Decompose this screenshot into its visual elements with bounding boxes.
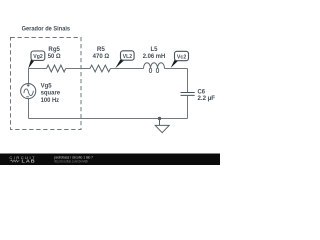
svg-text:LAB: LAB	[22, 159, 36, 164]
svg-text:R5: R5	[97, 47, 106, 53]
wire: R5 to L5	[110, 68, 143, 70]
footer logo resistor zigzag	[10, 160, 20, 162]
svg-text:C6: C6	[198, 89, 206, 95]
footer bar	[0, 154, 220, 166]
inductor L5	[144, 63, 165, 69]
wire: corner down to C6	[187, 69, 189, 93]
svg-text:2.2 µF: 2.2 µF	[198, 96, 216, 102]
ground	[155, 119, 169, 133]
svg-text:100 Hz: 100 Hz	[41, 98, 60, 104]
svg-text:Vg2: Vg2	[33, 54, 42, 60]
resistor Rg5	[47, 65, 66, 72]
wire: Rg5 to R5	[66, 68, 90, 70]
dashed annotation box	[11, 38, 82, 130]
wire: corner to Rg5	[29, 68, 47, 70]
voltage source Vg5	[21, 84, 36, 99]
svg-text:VL2: VL2	[123, 54, 132, 60]
wire: C6 down to bottom-right corner	[187, 96, 189, 119]
wire: source bottom to bottom rail	[28, 99, 30, 119]
svg-text:Vc2: Vc2	[177, 54, 186, 60]
node junction dot at ground	[158, 117, 161, 120]
svg-text:L5: L5	[151, 47, 159, 53]
probe label Vc2	[171, 51, 189, 68]
resistor R5	[90, 65, 110, 72]
wire: bottom rail	[29, 118, 188, 120]
svg-text:square: square	[41, 91, 61, 97]
svg-text:http:∕∕circuitlab.com∕c6vh48b: http:∕∕circuitlab.com∕c6vh48b	[54, 159, 88, 163]
wire: top-left corner to source top	[28, 69, 30, 84]
svg-text:Vg5: Vg5	[41, 84, 53, 90]
svg-text:Rg5: Rg5	[48, 47, 60, 53]
svg-text:50 Ω: 50 Ω	[48, 54, 61, 60]
probe label VL2	[115, 51, 134, 69]
svg-text:Gerador de Sinais: Gerador de Sinais	[22, 26, 71, 32]
wire: L5 to top-right corner	[165, 68, 188, 70]
probe label Vg2	[28, 51, 45, 69]
svg-text:470 Ω: 470 Ω	[93, 54, 110, 60]
svg-text:2.06 mH: 2.06 mH	[143, 54, 166, 60]
capacitor C6 plates	[181, 93, 195, 96]
